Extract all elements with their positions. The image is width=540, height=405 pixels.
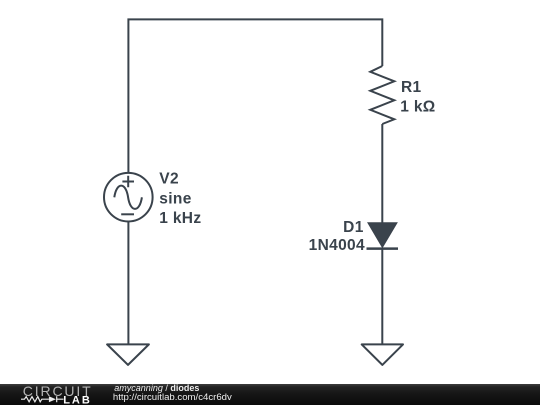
label R1 value (400, 79, 435, 116)
resistor R1 (370, 66, 394, 124)
ground (left) (107, 344, 149, 365)
footer bar (0, 384, 540, 405)
svg-text:LAB: LAB (63, 394, 92, 405)
svg-text:sine: sine (159, 191, 191, 208)
wire D1 cathode to right ground (381, 249, 383, 344)
wire top net: V2 top to R1 top (128, 19, 382, 173)
diode D1 (367, 223, 399, 249)
ground (right) (362, 344, 403, 365)
voltage source V2 (104, 173, 153, 222)
svg-text:1 kHz: 1 kHz (159, 210, 201, 227)
svg-text:1 kΩ: 1 kΩ (400, 99, 435, 116)
CircuitLab logo glyph: resistor zigzag, diode, lead line (21, 396, 64, 402)
wire V2 bottom to left ground (127, 222, 129, 345)
label D1 value (309, 219, 365, 254)
svg-text:http://circuitlab.com/c4cr6dv: http://circuitlab.com/c4cr6dv (113, 392, 232, 403)
label V2 value (159, 170, 201, 227)
svg-text:V2: V2 (159, 170, 179, 187)
svg-text:D1: D1 (343, 219, 364, 236)
wire R1 bottom to D1 anode (381, 124, 383, 224)
svg-text:1N4004: 1N4004 (309, 237, 365, 254)
svg-text:R1: R1 (401, 79, 422, 96)
